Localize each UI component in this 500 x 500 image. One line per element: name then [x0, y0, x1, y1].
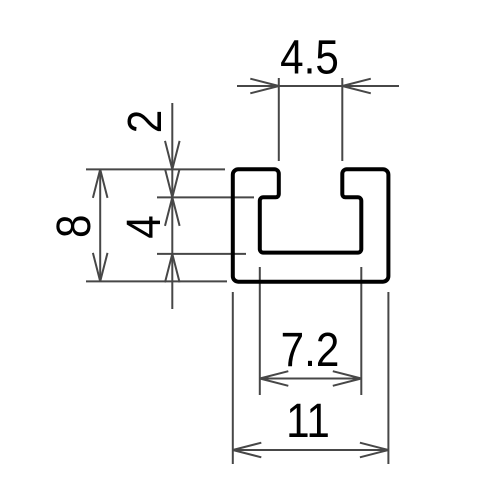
- svg-text:11: 11: [286, 393, 330, 447]
- svg-text:8: 8: [46, 215, 100, 238]
- svg-text:4.5: 4.5: [280, 30, 339, 84]
- svg-text:4: 4: [116, 215, 170, 238]
- svg-text:2: 2: [117, 110, 171, 133]
- svg-text:7.2: 7.2: [281, 322, 340, 376]
